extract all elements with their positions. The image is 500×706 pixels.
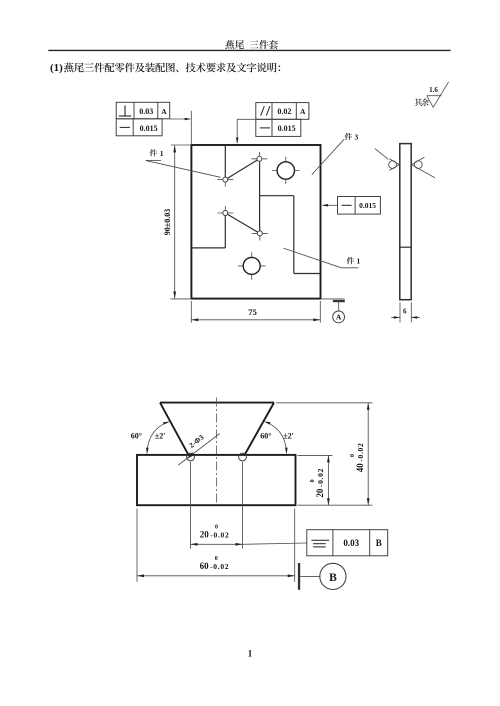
datum A stem [338,302,340,311]
dimension 20-0.02 extension right [242,462,244,549]
relief hole right [239,453,247,461]
dimension 20-0.02 line [191,543,243,545]
dovetail block outline [137,455,296,505]
angle left arc with arrows [147,422,169,453]
svg-text:-0.02: -0.02 [210,562,229,571]
svg-text:20: 20 [315,488,325,498]
side view plate outline [400,144,411,300]
hole callout 2-Φ3 leader [178,434,219,466]
corner relief hole K2 [257,156,262,161]
roughness symbol right tail [422,170,435,177]
dimension 40-0.02 extension bottom [298,504,373,506]
svg-text:40: 40 [355,463,365,473]
svg-text:0: 0 [215,525,218,531]
roughness symbol right [412,159,422,165]
dimension 60-0.02 line [137,575,295,577]
dimension 75 line [192,319,321,321]
svg-text:0.015: 0.015 [278,124,296,133]
roughness symbol left [389,159,399,165]
svg-text:90±0.03: 90±0.03 [163,209,172,235]
dimension 6 extension right [410,302,412,322]
dimension 40-0.02 text [350,443,365,473]
dimension 90±0.03 extension bottom [171,298,192,300]
svg-text:-0.02: -0.02 [210,530,229,539]
svg-text:1: 1 [160,149,164,158]
right step horizontal lower line [294,273,321,275]
corner relief hole K3 crosshair [217,212,233,214]
part label 件3 with leader [345,133,352,140]
dimension 75 extension left [190,301,192,323]
svg-text:60°: 60° [131,431,142,440]
dimension 20-0.01 extension top [298,454,333,456]
corner relief hole K4 [257,231,262,236]
feature control frame FCF3 straightness 0.015 [338,197,381,215]
feature control frame FCF2 parallelism 0.02 A with straightness 0.015 [256,103,309,120]
part label 件1 with leader [347,257,354,264]
svg-text:A: A [300,107,306,116]
dovetail tenon top edge [160,402,274,404]
side view split line [400,246,411,248]
dimension 20-0.01 text [310,468,325,498]
part label 件1 upper with leader [150,149,157,156]
relief hole left [187,453,195,461]
dimension 6 lines [391,316,400,318]
joint line vertical above left step [224,215,226,248]
svg-text:B: B [376,538,382,548]
dovetail diagonal upper [225,159,259,180]
svg-text:2-Φ3: 2-Φ3 [187,433,205,450]
svg-text:0: 0 [350,454,356,457]
svg-text:0.03: 0.03 [139,107,153,116]
datum B solid bar [298,563,300,590]
svg-text:A: A [161,107,167,116]
FCF2 leader bent arrow to top edge [237,118,256,120]
datum A circle [333,311,345,323]
dimension 60-0.02 extension left [136,509,138,582]
datum B circle [320,563,346,589]
screw hole H1 [277,162,294,179]
FCF4 connector line [243,543,307,544]
corner relief hole K2 crosshair [251,158,267,160]
part outline main square [191,145,320,299]
FCF3 leader arrow to right edge [323,204,338,206]
svg-text:3: 3 [355,133,359,142]
datum B stem [300,575,320,577]
screw hole H2 [243,257,260,274]
datum A extension line [321,298,345,300]
svg-text:20: 20 [200,529,210,539]
svg-text:75: 75 [248,307,257,317]
svg-text:6: 6 [403,307,407,315]
feature control frame FCF4 symmetry 0.03 B [307,530,388,556]
svg-text:0.02: 0.02 [277,107,291,116]
screw hole H2 crosshair [238,265,266,267]
corner relief hole K3 [223,211,228,216]
dovetail diagonal lower [225,213,259,233]
angle right arc with arrows [265,422,287,453]
dimension 75 extension right [319,301,321,323]
svg-text:0: 0 [215,556,218,562]
dimension 40-0.02 extension top [276,402,372,404]
svg-text:1: 1 [248,648,253,658]
svg-text:A: A [336,314,342,322]
svg-text:0.015: 0.015 [140,124,158,133]
corner relief hole K4 crosshair [252,232,268,234]
svg-text:B: B [329,572,337,584]
screw hole H1 crosshair [272,170,300,172]
page header title 燕尾 三件套 [225,40,278,49]
right step vertical line [293,196,295,274]
joint line vertical from top edge [224,145,226,178]
left edge extension line above part [190,111,192,144]
feature control frame FCF1 perpendicularity 0.03 A with straightness 0.015 [116,102,170,119]
svg-text:60: 60 [200,561,210,571]
corner relief hole K1 [223,177,228,182]
svg-text:0.03: 0.03 [343,538,359,548]
svg-text:60°: 60° [260,431,271,440]
svg-text:±2′: ±2′ [283,431,294,440]
svg-text:1: 1 [357,257,361,266]
centerline [215,398,217,504]
svg-text:1.6: 1.6 [429,86,438,94]
dimension 6 extension left [399,302,401,322]
FCF1 leader arrow to left edge extension [170,118,190,120]
svg-text:±2′: ±2′ [155,431,166,440]
datum A solid bar [333,300,345,302]
joint line vertical between corner holes [259,161,261,232]
header rule line [48,49,450,51]
svg-text:-0.02: -0.02 [356,443,365,462]
svg-text:-0.02: -0.02 [316,468,325,487]
dimension 20-0.02 extension left [190,462,192,549]
dimension 90±0.03 extension top [171,144,191,146]
corner relief hole K1 crosshair [217,179,233,181]
svg-text:(1): (1) [50,62,63,74]
surface roughness note 其余 1.6 [415,99,429,107]
right step horizontal upper line [260,195,294,197]
dimension 40-0.02 line [367,403,369,505]
roughness symbol left tail [375,149,388,160]
svg-text:0.015: 0.015 [359,201,376,210]
dovetail tenon left flank [160,403,189,456]
left step horizontal line [191,247,225,249]
dovetail tenon right flank [244,403,274,456]
svg-text:0: 0 [310,479,316,482]
dimension 90±0.03 line [174,146,176,299]
dimension 60-0.02 extension right [294,509,296,582]
dimension 20-0.01 line [327,456,329,505]
